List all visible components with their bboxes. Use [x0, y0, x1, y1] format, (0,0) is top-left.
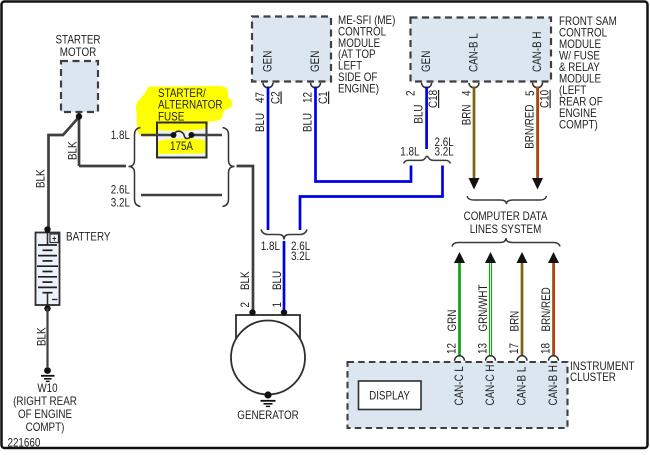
wire BRN/RED up to data lines [552, 263, 555, 357]
svg-text:W10: W10 [37, 381, 57, 395]
svg-text:CAN-B H: CAN-B H [530, 32, 544, 73]
svg-text:C18: C18 [426, 90, 440, 108]
svg-text:GEN: GEN [261, 51, 275, 72]
svg-text:2: 2 [404, 90, 418, 96]
svg-text:COMPUTER DATA: COMPUTER DATA [464, 209, 548, 223]
svg-text:12: 12 [301, 92, 315, 103]
instrument cluster box [348, 362, 568, 428]
svg-text:GEN: GEN [419, 51, 433, 72]
svg-text:BRN: BRN [508, 311, 522, 332]
svg-text:CAN-B L: CAN-B L [467, 33, 481, 72]
svg-text:12: 12 [445, 343, 459, 354]
svg-text:ENGINE): ENGINE) [338, 81, 379, 95]
yellow highlight blob over STARTER/ALTERNATOR FUSE label [136, 86, 232, 137]
svg-text:BLK: BLK [34, 169, 48, 188]
svg-text:C2: C2 [269, 91, 283, 104]
svg-text:CAN-C H: CAN-C H [483, 365, 497, 406]
generator junction dot pin2 [249, 309, 255, 315]
wire starter vertical BLK [78, 112, 81, 166]
starter motor box [61, 61, 98, 112]
wire horizontal to left brace [79, 165, 126, 168]
wire GRN/WHT up to data lines [489, 263, 492, 357]
ME-SFI pin arc 47 [263, 83, 273, 88]
FRONT SAM description text [559, 14, 617, 132]
ME-SFI description text [338, 13, 395, 95]
generator terminal box [236, 315, 300, 347]
battery plates [37, 245, 58, 293]
svg-text:BRN: BRN [460, 105, 474, 126]
svg-text:MOTOR: MOTOR [60, 45, 97, 59]
battery top stub [47, 229, 49, 245]
svg-text:BLU: BLU [253, 113, 267, 132]
svg-text:47: 47 [253, 92, 267, 103]
cluster pin arc 17 [517, 356, 527, 361]
yellow strip inside fuse box (top) [158, 123, 207, 131]
svg-text:1.8L: 1.8L [261, 239, 280, 253]
svg-text:BLU: BLU [270, 271, 284, 290]
battery box [36, 233, 60, 306]
svg-text:2.6L: 2.6L [111, 183, 130, 197]
svg-text:BATTERY: BATTERY [66, 230, 111, 244]
FRONT SAM module box [411, 18, 552, 82]
svg-text:4: 4 [460, 90, 474, 96]
ME-SFI pin arc 12 [311, 83, 321, 88]
svg-text:5: 5 [523, 90, 537, 96]
wire from right brace down to generator (2 BLK) [237, 166, 254, 311]
ground W10 bars [41, 375, 55, 377]
svg-text:2: 2 [238, 302, 252, 308]
battery bottom stub [47, 293, 49, 308]
svg-text:C1: C1 [316, 91, 330, 104]
svg-text:CLUSTER: CLUSTER [570, 370, 616, 384]
wire BRN/RED pin5 [536, 87, 539, 179]
split brace under C18 wire [404, 156, 451, 163]
wire starter diagonal to battery BLK [49, 117, 80, 228]
wire BLU pin47 C2 down to merge brace [267, 87, 270, 231]
arrow GRN up [454, 252, 465, 263]
fuse element squiggle [174, 131, 192, 138]
wire through fuse 1.8L [141, 134, 172, 136]
generator ground dot [264, 391, 271, 398]
svg-text:+: + [52, 234, 56, 244]
svg-text:3.2L: 3.2L [111, 196, 130, 210]
cluster pin arc 18 [549, 356, 559, 361]
fuse box interior fill [157, 123, 207, 158]
junction dot starter [76, 113, 82, 119]
2.6L wire (bypass) [141, 194, 222, 196]
SAM pin arc 2 [422, 83, 432, 88]
svg-text:BLU: BLU [301, 113, 315, 132]
svg-text:COMPT): COMPT) [26, 420, 65, 434]
svg-text:3.2L: 3.2L [291, 249, 310, 263]
battery + terminal box [50, 234, 59, 243]
arrow BRN down [469, 178, 480, 190]
generator ground bars [261, 400, 276, 402]
svg-text:GRN: GRN [445, 310, 459, 332]
cluster pin arc 12 [455, 356, 465, 361]
svg-text:GENERATOR: GENERATOR [237, 408, 299, 422]
fuse dot right [189, 132, 195, 138]
svg-text:17: 17 [507, 343, 521, 354]
yellow band behind 175A [158, 138, 205, 154]
wire GRN up to data lines [458, 263, 461, 357]
svg-text:BLK: BLK [35, 327, 49, 346]
wire BLU merge to generator pin 1 [283, 241, 286, 311]
SAM pin arc 5 [533, 83, 543, 88]
wire BLU pin12 C1 down-left-up [316, 87, 412, 182]
arrow BRN up [517, 252, 528, 263]
svg-text:BLU: BLU [412, 105, 426, 124]
svg-text:BLK: BLK [238, 271, 252, 290]
svg-text:LINES SYSTEM: LINES SYSTEM [470, 222, 542, 236]
DISPLAY box [359, 381, 422, 410]
wire right branch 2.6L/3.2L down-left to merge [300, 166, 443, 231]
generator circle [231, 321, 305, 395]
right brace of fuse split [223, 128, 235, 207]
svg-text:CAN-C L: CAN-C L [452, 366, 466, 406]
wire BRN pin4 [473, 87, 476, 179]
overbrace above cluster arrows [452, 238, 560, 247]
ground W10 dot [44, 367, 51, 374]
cluster pin arc 13 [486, 356, 496, 361]
wire battery to ground BLK [46, 308, 48, 367]
svg-text:CAN-B L: CAN-B L [515, 366, 529, 405]
generator junction dot pin1 [281, 309, 287, 315]
battery bottom junction dot [44, 305, 50, 311]
svg-text:COMPT): COMPT) [559, 118, 598, 132]
SAM pin arc 4 [469, 83, 479, 88]
svg-text:DISPLAY: DISPLAY [369, 389, 410, 403]
svg-text:(RIGHT REAR: (RIGHT REAR [13, 394, 77, 408]
svg-text:BLK: BLK [66, 141, 80, 160]
svg-text:GEN: GEN [308, 51, 322, 72]
svg-text:GRN/WHT: GRN/WHT [476, 284, 490, 332]
battery top junction dot [44, 226, 50, 232]
ME-SFI module box [252, 17, 331, 82]
svg-text:CAN-B H: CAN-B H [546, 365, 560, 406]
svg-text:OF ENGINE: OF ENGINE [18, 407, 72, 421]
svg-text:BRN/RED: BRN/RED [539, 287, 553, 332]
svg-text:1.8L: 1.8L [111, 128, 130, 142]
svg-text:175A: 175A [170, 139, 193, 153]
wire BLU pin2 C18 down to split brace [425, 87, 428, 150]
arrow GRN/WHT up [485, 252, 496, 263]
battery minus mark [52, 299, 58, 301]
merge brace above generator [261, 230, 307, 240]
arrow BRN/RED down [532, 178, 543, 190]
left brace of fuse split [129, 128, 141, 207]
fuse dot left [171, 132, 177, 138]
arrow BRN/RED up [548, 252, 559, 263]
svg-text:1: 1 [270, 302, 284, 308]
svg-text:18: 18 [539, 343, 553, 354]
svg-text:C10: C10 [538, 90, 552, 108]
svg-text:13: 13 [476, 343, 490, 354]
underbrace below SAM arrows [467, 196, 547, 204]
svg-text:1.8L: 1.8L [400, 145, 419, 159]
fuse box [157, 123, 207, 158]
svg-text:3.2L: 3.2L [435, 145, 454, 159]
svg-text:BRN/RED: BRN/RED [523, 104, 537, 149]
svg-text:FUSE: FUSE [158, 110, 184, 124]
wire BRN up to data lines [521, 263, 524, 357]
